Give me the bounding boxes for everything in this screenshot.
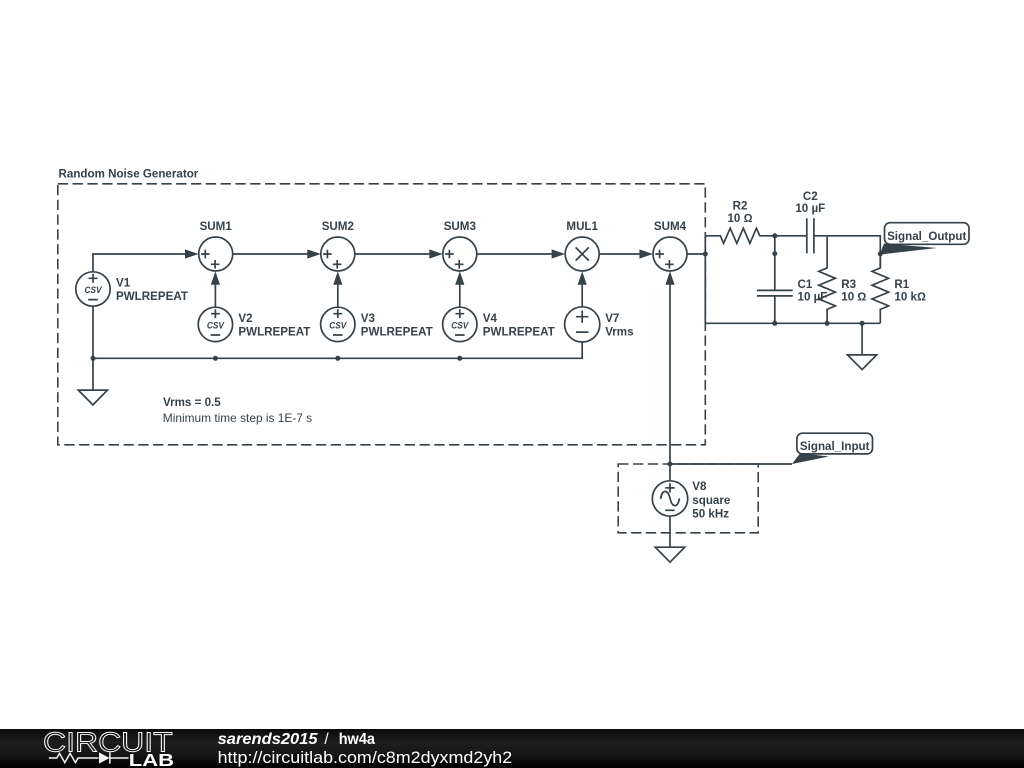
junction dot rail C1 — [772, 321, 777, 326]
wire C2 node down to C1 — [774, 236, 776, 291]
note Vrms = 0.5 — [163, 396, 221, 409]
label V3 PWLREPEAT — [361, 312, 433, 339]
wire SUM4 branch to Signal_Input — [670, 463, 792, 465]
wire SUM3 to MUL1 — [477, 253, 553, 255]
arrowhead into MUL1 — [552, 249, 566, 258]
svg-text:Signal_Input: Signal_Input — [800, 440, 870, 453]
svg-text:V7: V7 — [605, 312, 619, 325]
label SUM4 — [654, 220, 687, 233]
label V4 PWLREPEAT — [483, 312, 555, 339]
svg-text:PWLREPEAT: PWLREPEAT — [361, 326, 433, 339]
ground under V8 — [655, 547, 684, 562]
svg-text:R2: R2 — [733, 199, 748, 212]
dashed box V8 — [618, 464, 758, 533]
label C2 10 uF — [795, 190, 825, 215]
arrowhead into SUM3 — [429, 249, 443, 258]
label Random Noise Generator — [59, 168, 199, 181]
arrowhead V7 to MUL1 — [578, 271, 587, 285]
svg-text:C1: C1 — [798, 278, 813, 291]
ground right circuit — [848, 355, 877, 370]
svg-text:Random Noise Generator: Random Noise Generator — [59, 168, 199, 181]
flag Signal_Input — [792, 433, 873, 464]
svg-text:10 kΩ: 10 kΩ — [894, 290, 926, 303]
svg-text:SUM4: SUM4 — [654, 220, 687, 233]
svg-text:V2: V2 — [238, 312, 252, 325]
svg-text:CSV: CSV — [329, 320, 347, 331]
svg-text:V1: V1 — [116, 276, 131, 289]
logo resistor diode glyph — [49, 752, 129, 763]
wire right vertical bus — [704, 236, 706, 323]
junction dot V8 node — [668, 462, 673, 467]
source V4 — [443, 307, 477, 341]
junction dot SUM4 output — [703, 252, 708, 257]
source V1 — [76, 272, 110, 306]
svg-text:http://circuitlab.com/c8m2dyxm: http://circuitlab.com/c8m2dyxmd2yh2 — [218, 748, 513, 767]
svg-text:R3: R3 — [841, 278, 856, 291]
label V7 Vrms — [605, 312, 633, 339]
ground under V1 — [78, 390, 107, 405]
resistor R2 — [705, 228, 775, 243]
svg-text:MUL1: MUL1 — [566, 220, 598, 233]
arrowhead V2 to SUM1 — [211, 271, 220, 285]
wire V1 top to SUM1 input — [93, 254, 186, 271]
svg-text:Vrms: Vrms — [605, 326, 633, 339]
arrowhead V4 to SUM3 — [455, 271, 464, 285]
svg-text:V3: V3 — [361, 312, 376, 325]
junction dot rail V2 — [213, 356, 218, 361]
svg-text:PWLREPEAT: PWLREPEAT — [483, 326, 555, 339]
svg-text:Minimum time step is 1E-7 s: Minimum time step is 1E-7 s — [163, 411, 312, 425]
svg-text:V4: V4 — [483, 312, 498, 325]
svg-text:V8: V8 — [692, 480, 707, 493]
wire V8 to ground — [669, 516, 671, 547]
wire MUL1 to SUM4 — [599, 253, 640, 255]
logo CIRCUIT — [43, 727, 173, 758]
label SUM2 — [322, 220, 354, 233]
note Minimum time step — [163, 411, 312, 425]
svg-text:10 Ω: 10 Ω — [727, 212, 752, 225]
svg-text:Signal_Output: Signal_Output — [887, 230, 966, 243]
svg-text:sarends2015: sarends2015 — [218, 731, 318, 748]
sum block SUM3 — [443, 237, 477, 271]
footer title sarends2015 / hw4a — [218, 731, 376, 748]
wire V7 to MUL1 — [581, 284, 583, 307]
resistor R3 — [819, 236, 836, 323]
junction dot rail V1 — [91, 356, 96, 361]
label MUL1 — [566, 220, 598, 233]
logo LAB — [129, 750, 174, 768]
label SUM3 — [444, 220, 477, 233]
svg-text:Vrms = 0.5: Vrms = 0.5 — [163, 396, 221, 409]
junction dot rail R3 — [825, 321, 830, 326]
svg-text:SUM2: SUM2 — [322, 220, 354, 233]
arrowhead V8 to SUM4 — [665, 271, 674, 285]
junction dot R2 C2 — [772, 233, 777, 238]
junction dot C1 branch top — [772, 251, 777, 256]
junction dot rail ground — [860, 321, 865, 326]
svg-text:C2: C2 — [803, 190, 818, 203]
sum block SUM4 — [653, 237, 687, 271]
svg-text:CSV: CSV — [85, 284, 103, 295]
flag Signal_Output — [880, 223, 969, 255]
capacitor C2 — [807, 218, 814, 253]
wire C1 to rail — [774, 296, 776, 323]
source V2 — [198, 307, 232, 341]
arrowhead into SUM1 — [185, 249, 199, 258]
label R3 10 ohm — [841, 278, 866, 303]
wire rail to ground — [92, 358, 94, 390]
source V8 — [652, 481, 687, 516]
arrowhead into SUM4 — [639, 249, 653, 258]
wire V2 to SUM1 — [214, 284, 216, 307]
arrowhead V3 to SUM2 — [333, 271, 342, 285]
label V8 square 50 kHz — [692, 480, 731, 521]
arrowhead into SUM2 — [307, 249, 321, 258]
label V1 PWLREPEAT — [116, 276, 188, 303]
svg-text:R1: R1 — [894, 278, 909, 291]
label R1 10 kohm — [894, 278, 926, 303]
resistor R1 — [872, 254, 889, 323]
label C1 10 uF — [798, 278, 828, 303]
wire V3 to SUM2 — [337, 284, 339, 307]
wire node to C2 — [775, 235, 807, 237]
svg-text:SUM3: SUM3 — [444, 220, 477, 233]
svg-text:PWLREPEAT: PWLREPEAT — [116, 290, 188, 303]
capacitor C1 — [757, 290, 793, 296]
label SUM1 — [200, 220, 233, 233]
svg-text:50 kHz: 50 kHz — [692, 508, 729, 521]
svg-text:square: square — [692, 494, 731, 507]
sum block SUM2 — [321, 237, 355, 271]
svg-text:PWLREPEAT: PWLREPEAT — [238, 326, 310, 339]
bottom rail right circuit — [705, 322, 880, 324]
wire SUM1 to SUM2 — [233, 253, 309, 255]
wire C2 to R1 corner — [814, 236, 880, 268]
source V3 — [321, 307, 355, 341]
wire to ground right — [861, 323, 863, 355]
svg-text:10 µF: 10 µF — [795, 202, 825, 215]
wire V4 to SUM3 — [459, 284, 461, 307]
footer bar — [0, 729, 1024, 768]
label R2 10 ohm — [727, 199, 752, 225]
wire V8 to SUM4 — [669, 284, 671, 481]
svg-text:10 Ω: 10 Ω — [841, 290, 866, 303]
svg-text:/: / — [324, 731, 329, 748]
label V2 PWLREPEAT — [238, 312, 310, 339]
junction dot rail V4 — [457, 356, 462, 361]
source V7 — [565, 307, 600, 342]
svg-text:SUM1: SUM1 — [200, 220, 233, 233]
svg-text:CSV: CSV — [207, 320, 225, 331]
svg-text:hw4a: hw4a — [339, 731, 376, 748]
sum block SUM1 — [199, 237, 233, 271]
svg-text:LAB: LAB — [129, 750, 174, 768]
bottom rail wire — [93, 307, 582, 359]
footer url — [218, 748, 513, 767]
wire SUM4 output to node — [687, 253, 705, 255]
wire SUM2 to SUM3 — [355, 253, 431, 255]
svg-text:CSV: CSV — [451, 320, 469, 331]
junction dot rail V3 — [335, 356, 340, 361]
multiplier MUL1 — [565, 237, 599, 271]
dashed box Random Noise Generator — [58, 184, 706, 445]
junction dot Signal_Output — [878, 251, 883, 256]
